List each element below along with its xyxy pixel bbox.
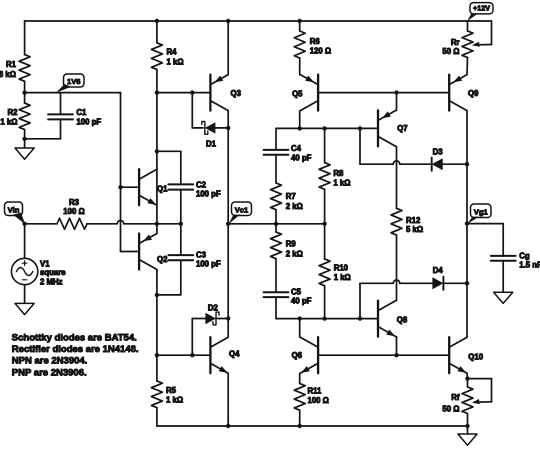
resistor R4 <box>151 21 183 169</box>
resistor R12 <box>391 146 423 300</box>
transistor Q4 (NPN 2N3904) <box>157 337 240 426</box>
svg-text:40 pF: 40 pF <box>291 297 312 306</box>
node 1V6 bias wire <box>22 90 120 94</box>
svg-text:+12V: +12V <box>473 4 490 13</box>
wire R3 to emitters of Q1/Q2 (hops over base line) <box>87 220 183 226</box>
svg-text:R7: R7 <box>286 192 296 201</box>
svg-text:2 kΩ: 2 kΩ <box>286 249 303 258</box>
svg-text:100 Ω: 100 Ω <box>308 396 329 405</box>
transistor Q10 (NPN 2N3904) <box>449 337 484 378</box>
transistor Q8 (NPN 2N3904) <box>378 301 408 356</box>
svg-text:R11: R11 <box>308 386 323 395</box>
node Vg1 label <box>467 204 491 224</box>
svg-text:R2: R2 <box>8 108 19 117</box>
svg-text:R9: R9 <box>286 240 297 249</box>
transistor Q6 (NPN 2N3904) <box>292 319 319 374</box>
svg-text:Q7: Q7 <box>397 124 407 133</box>
diode D1 (Schottky BAT54) <box>192 93 230 149</box>
svg-text:50 Ω: 50 Ω <box>442 404 459 413</box>
svg-text:Rf: Rf <box>451 393 460 402</box>
svg-text:Q4: Q4 <box>229 349 240 358</box>
svg-text:C5: C5 <box>291 287 302 296</box>
svg-text:R6: R6 <box>310 37 321 46</box>
svg-text:Rectifier diodes are 1N4148.: Rectifier diodes are 1N4148. <box>12 344 139 355</box>
transistor Q5 (PNP 2N3906) <box>292 75 318 129</box>
svg-text:R12: R12 <box>406 216 421 225</box>
capacitor Cg <box>467 224 540 293</box>
svg-text:2 kΩ: 2 kΩ <box>286 202 303 211</box>
resistor R7 <box>271 183 303 224</box>
trimmer Rr 50 ohm <box>442 21 491 75</box>
resistor R8 <box>319 128 350 223</box>
wire Q8 base clamp line to D4 (hops over R12 line) <box>360 280 433 319</box>
wire +12V top supply rail <box>25 19 492 23</box>
svg-text:Q6: Q6 <box>292 351 303 360</box>
svg-text:Schottky diodes are BAT54.: Schottky diodes are BAT54. <box>12 332 137 343</box>
transistor Q1 (NPN 2N3904) <box>121 169 169 224</box>
node 1V6 label <box>56 74 84 93</box>
resistor R11 <box>294 373 329 426</box>
svg-text:PNP are 2N3906.: PNP are 2N3906. <box>12 367 87 378</box>
capacitor C5 <box>264 287 312 318</box>
svg-text:1V6: 1V6 <box>67 77 81 86</box>
resistor R10 <box>319 224 351 319</box>
node Vc1 label <box>228 202 251 224</box>
diode D4 (1N4148) <box>432 266 469 290</box>
wire 1V6 base line down to Q1/Q2 bases <box>118 93 122 252</box>
svg-text:C4: C4 <box>291 144 302 153</box>
svg-text:2 MHz: 2 MHz <box>40 277 63 286</box>
svg-text:R10: R10 <box>334 264 349 273</box>
resistor R9 <box>271 224 303 292</box>
svg-text:NPN are 2N3904.: NPN are 2N3904. <box>12 356 88 367</box>
wire Q5 base to Q9 base net <box>318 90 449 94</box>
transistor Q2 (PNP 2N3906) <box>121 224 169 295</box>
svg-text:Cg: Cg <box>519 251 530 260</box>
trimmer Rf 50 ohm <box>442 376 491 426</box>
svg-text:6 kΩ: 6 kΩ <box>0 70 16 79</box>
svg-text:R8: R8 <box>333 169 344 178</box>
svg-text:C3: C3 <box>196 251 207 260</box>
svg-text:Q9: Q9 <box>468 89 479 98</box>
voltage source V1 square 2 MHz <box>11 224 66 286</box>
transistor Q9 (PNP 2N3906) <box>449 75 479 111</box>
svg-text:V1: V1 <box>40 259 50 268</box>
svg-text:Vg1: Vg1 <box>474 207 489 216</box>
wire Q3 base net <box>157 90 211 94</box>
svg-text:Q5: Q5 <box>292 89 303 98</box>
ground below bottom rail <box>458 426 477 445</box>
svg-text:square: square <box>40 268 66 277</box>
svg-text:Q8: Q8 <box>397 315 408 324</box>
svg-text:D3: D3 <box>433 147 444 156</box>
wire Q7 base clamp line to D3 (hops over R12 line) <box>360 128 432 164</box>
svg-text:Q3: Q3 <box>231 89 242 98</box>
svg-text:1 kΩ: 1 kΩ <box>334 273 351 282</box>
wire bottom ground rail <box>157 424 470 428</box>
svg-text:Vc1: Vc1 <box>235 205 249 214</box>
transistor Q7 (PNP 2N3906) <box>378 93 408 147</box>
resistor R2 <box>0 93 30 139</box>
svg-text:100 pF: 100 pF <box>196 260 221 269</box>
svg-text:D1: D1 <box>206 139 217 148</box>
svg-text:Q2: Q2 <box>157 255 168 264</box>
capacitor C3 <box>155 224 221 297</box>
svg-text:100 pF: 100 pF <box>196 189 221 198</box>
svg-text:C2: C2 <box>196 181 207 190</box>
svg-text:1 kΩ: 1 kΩ <box>167 58 184 67</box>
svg-text:5 kΩ: 5 kΩ <box>406 225 423 234</box>
diode D3 (1N4148) <box>432 147 469 171</box>
ground below Cg <box>494 292 513 303</box>
svg-text:100 pF: 100 pF <box>76 117 101 126</box>
svg-text:1.5 nF: 1.5 nF <box>519 261 540 270</box>
svg-text:1 kΩ: 1 kΩ <box>0 117 17 126</box>
svg-text:120 Ω: 120 Ω <box>310 47 331 56</box>
svg-text:R5: R5 <box>166 386 177 395</box>
resistor R6 <box>294 21 331 75</box>
svg-text:R1: R1 <box>6 60 17 69</box>
svg-text:Vin: Vin <box>8 205 20 214</box>
svg-text:C1: C1 <box>76 108 87 117</box>
diode D2 (Schottky BAT54) <box>190 304 230 358</box>
wire Vc1 to R7/R9 and R8/R10 junctions <box>228 222 327 226</box>
node +12V label <box>467 3 493 22</box>
ground below V1 <box>15 285 34 315</box>
resistor R5 <box>151 295 183 426</box>
node Vin label <box>5 202 26 224</box>
notes text block <box>12 332 139 378</box>
svg-text:R3: R3 <box>69 198 80 207</box>
resistor R1 <box>0 21 30 93</box>
svg-text:1 kΩ: 1 kΩ <box>166 396 183 405</box>
wire Q6 base to Q10 base net <box>318 353 449 357</box>
svg-text:1 kΩ: 1 kΩ <box>333 179 350 188</box>
svg-text:40 pF: 40 pF <box>291 153 312 162</box>
wire bottom middle node (Q6 collector, C5, R10, Q8 base) <box>276 316 378 320</box>
svg-text:Q1: Q1 <box>157 184 168 193</box>
svg-text:D4: D4 <box>433 266 444 275</box>
capacitor C4 <box>264 128 312 183</box>
wire Vg1 output column (Q9 collector to Q10 collector) <box>465 111 469 338</box>
svg-text:100 Ω: 100 Ω <box>63 207 84 216</box>
wire top middle node (Q5 collector, C4, R8, Q7 base) <box>276 126 378 130</box>
svg-text:50 Ω: 50 Ω <box>442 47 459 56</box>
ground below R2/C1 <box>15 139 34 159</box>
capacitor C1 <box>22 93 101 141</box>
capacitor C2 <box>157 151 221 224</box>
wire Vc1 column (Q3 collector to Q4 collector) <box>226 111 230 338</box>
resistor R3 <box>57 198 87 230</box>
wire Vin input line <box>22 222 57 226</box>
svg-text:Q10: Q10 <box>468 352 483 361</box>
transistor Q3 (PNP 2N3906) <box>210 21 241 111</box>
svg-text:R4: R4 <box>167 48 178 57</box>
svg-text:D2: D2 <box>208 304 219 313</box>
svg-text:Rr: Rr <box>451 38 460 47</box>
